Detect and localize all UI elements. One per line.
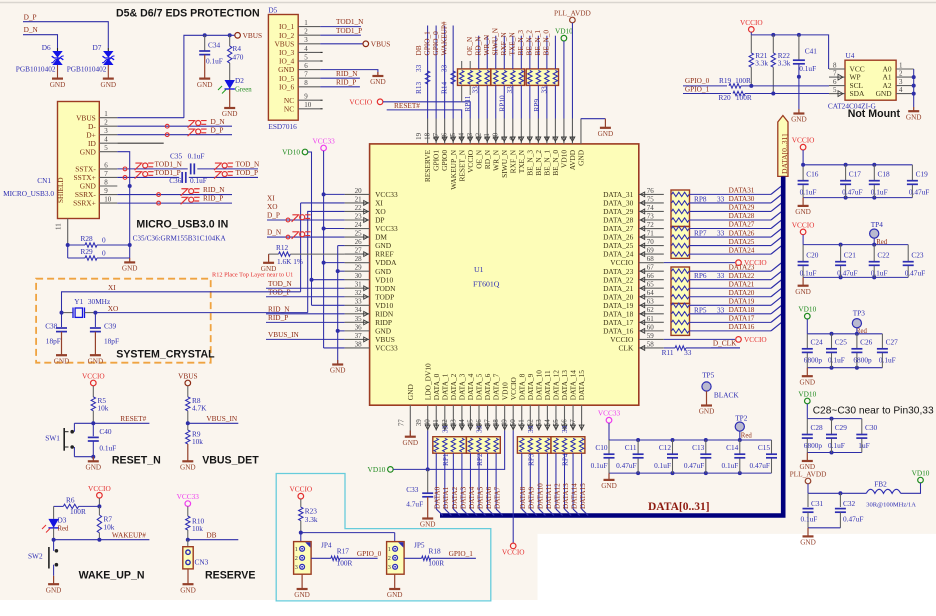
ground sym C34 (199, 77, 210, 79)
resistor R10 (187, 506, 189, 516)
svg-text:7: 7 (833, 70, 837, 78)
svg-text:C15: C15 (758, 443, 771, 452)
wire PLL_AVDD to pin2 (571, 23, 573, 119)
svg-text:SW1: SW1 (45, 434, 60, 443)
svg-text:7: 7 (304, 71, 308, 79)
U4 input arrows WP SDA (838, 74, 843, 80)
svg-text:8: 8 (104, 178, 108, 186)
svg-text:6800p: 6800p (804, 355, 823, 364)
wire PLL rail (808, 492, 866, 494)
wire RID_P pin35 (266, 321, 345, 323)
svg-text:ESD7016: ESD7016 (268, 122, 297, 131)
svg-text:WAKE_UP_N: WAKE_UP_N (79, 570, 145, 582)
svg-text:2: 2 (295, 555, 298, 562)
svg-text:33: 33 (526, 425, 535, 433)
wire VBUS CN1 pin1 (117, 117, 184, 119)
svg-text:GND: GND (601, 482, 617, 490)
capacitor C24 (806, 334, 808, 349)
svg-text:MICRO_USB3.0: MICRO_USB3.0 (3, 189, 54, 198)
svg-text:DATA6: DATA6 (485, 486, 493, 509)
svg-text:0.47uF: 0.47uF (616, 461, 636, 470)
svg-text:5: 5 (104, 144, 108, 152)
bus entry DATA4 (470, 509, 477, 516)
svg-text:JP5: JP5 (414, 541, 425, 550)
resistor R12 on RREF pin27 (269, 253, 279, 255)
svg-text:77: 77 (398, 419, 406, 427)
wire net DATA25 pin70 (690, 245, 772, 247)
wire VCCIO rail eeprom (750, 32, 752, 35)
svg-text:GND: GND (88, 357, 104, 365)
svg-text:JP4: JP4 (321, 541, 332, 550)
bus entry DATA1 (445, 509, 452, 516)
svg-text:33: 33 (717, 229, 725, 238)
svg-text:GPIO_1: GPIO_1 (685, 85, 710, 94)
svg-text:DATA25: DATA25 (729, 238, 755, 246)
svg-text:DATA21: DATA21 (729, 280, 755, 288)
svg-text:GND: GND (387, 591, 403, 599)
svg-text:BE_N_0: BE_N_0 (542, 30, 551, 56)
svg-text:8: 8 (833, 61, 837, 69)
wire TOD_N after C35 (197, 168, 258, 170)
svg-text:C35/C36:GRM155B31C104KA: C35/C36:GRM155B31C104KA (133, 234, 227, 242)
svg-text:0.47uF: 0.47uF (750, 461, 770, 470)
svg-text:D2: D2 (235, 76, 244, 85)
svg-text:RP10: RP10 (498, 95, 507, 112)
bus entry DATA17 (771, 314, 781, 322)
power port PLL_AVDD filter (805, 478, 811, 484)
svg-text:63: 63 (647, 298, 655, 306)
svg-text:VCC33: VCC33 (375, 344, 398, 353)
svg-text:GND: GND (420, 521, 436, 529)
ground sym U1 left (337, 360, 339, 365)
power port VCC33 reserve (185, 501, 191, 507)
svg-text:VCCIO: VCCIO (349, 97, 372, 106)
svg-text:GND: GND (180, 586, 196, 594)
resistor R5 (92, 386, 94, 397)
svg-text:RID_P: RID_P (203, 194, 223, 203)
svg-text:70: 70 (647, 238, 655, 246)
switch SW2 (53, 540, 55, 551)
wire pin1 GND route (581, 118, 605, 120)
svg-text:C17: C17 (849, 169, 862, 178)
svg-text:6800p: 6800p (804, 441, 823, 450)
U1 right pin stubs and numbers (639, 193, 664, 195)
svg-text:R12 Place Top Layer near to U1: R12 Place Top Layer near to U1 (212, 272, 293, 279)
bus entry DATA5 (479, 509, 486, 516)
svg-text:RP9: RP9 (532, 99, 541, 112)
svg-text:DATA29: DATA29 (729, 204, 755, 212)
wire RESET# net (92, 411, 94, 424)
svg-text:C28: C28 (811, 423, 824, 432)
ground sym VBUS_DET (187, 444, 189, 461)
wire net RD_N pin12 (486, 36, 488, 69)
svg-text:7: 7 (517, 136, 525, 140)
svg-text:C30: C30 (865, 423, 878, 432)
ground sym TP5 (706, 391, 708, 405)
svg-text:67: 67 (647, 264, 655, 272)
svg-text:GND: GND (598, 130, 614, 138)
svg-text:18: 18 (424, 132, 432, 140)
svg-text:R14: R14 (439, 81, 448, 94)
svg-text:33: 33 (684, 348, 692, 357)
svg-text:100R: 100R (428, 559, 444, 568)
wire VD10 to pin3 (563, 41, 565, 119)
svg-text:GND: GND (294, 591, 310, 599)
svg-text:3.3k: 3.3k (755, 59, 768, 68)
svg-text:33: 33 (439, 64, 448, 72)
capacitor C19 (911, 165, 913, 181)
wire SW1 bottom (74, 456, 93, 458)
dashed box SYSTEM_CRYSTAL (36, 279, 211, 363)
svg-text:R19: R19 (719, 76, 732, 85)
svg-text:PGB1010402: PGB1010402 (67, 65, 107, 74)
svg-text:33: 33 (414, 64, 423, 72)
wire C31 C32 bottoms (808, 527, 840, 529)
svg-text:76: 76 (647, 187, 655, 195)
svg-text:38: 38 (355, 340, 363, 348)
data bus horizontal (440, 513, 786, 518)
power port VBUS det (185, 380, 191, 386)
wire net DATA9 pin51 (529, 436, 531, 438)
wire RID_N D5 pin7 (320, 77, 360, 79)
power port VBUS D5 pin3 (320, 43, 363, 45)
svg-text:VCC33: VCC33 (177, 492, 200, 501)
svg-text:VCCIO: VCCIO (792, 136, 815, 145)
wire net WR_N pin11 (495, 36, 497, 69)
wire net DATA20 pin64 (690, 296, 772, 298)
resistor network RP10 (491, 69, 525, 86)
capacitor C20 (802, 245, 804, 262)
wire net BE_N_1 pin5 (546, 36, 548, 69)
svg-text:C22: C22 (877, 250, 890, 259)
LED D2 (229, 63, 231, 80)
svg-text:XI: XI (108, 283, 116, 292)
svg-text:17: 17 (432, 132, 440, 140)
svg-text:D3: D3 (58, 516, 67, 525)
svg-text:VD10: VD10 (798, 390, 816, 399)
svg-text:SHIELD: SHIELD (57, 177, 65, 203)
svg-text:C24: C24 (811, 337, 824, 346)
power port VCCIO wake (97, 493, 103, 499)
svg-text:VCC33: VCC33 (598, 409, 621, 418)
svg-text:C31: C31 (811, 499, 824, 508)
power port VD10 left (302, 149, 308, 155)
wire net DATA3 pin43 (461, 436, 463, 438)
capacitor C28 (806, 419, 808, 435)
svg-text:VCCIO: VCCIO (502, 548, 525, 557)
capacitor C14 (738, 438, 742, 442)
capacitor C31 (807, 493, 809, 507)
resistor R11 on CLK pin58 (664, 347, 675, 349)
svg-text:DATA12: DATA12 (553, 483, 561, 509)
svg-text:DATA_15: DATA_15 (577, 370, 586, 401)
wire U4 right common (913, 69, 915, 107)
wire TOD_P pin32 (266, 296, 345, 298)
svg-text:DATA10: DATA10 (536, 483, 544, 509)
svg-text:C18: C18 (878, 169, 891, 178)
svg-text:Red: Red (741, 432, 753, 439)
svg-text:DATA3: DATA3 (459, 486, 467, 509)
stub D5 pin5 (320, 60, 322, 62)
wire TOD1_P D5 pin2 (320, 34, 361, 36)
CN1 pin11 shield stub (67, 219, 69, 246)
bus entry DATA15 (582, 509, 589, 516)
bus entry DATA3 (462, 509, 469, 516)
wire net DATA11 pin53 (546, 436, 548, 438)
resistor network RP6 (671, 267, 690, 304)
bus entry DATA30 (771, 195, 781, 203)
svg-text:D_P: D_P (211, 125, 224, 134)
svg-text:XO: XO (108, 304, 119, 313)
svg-text:PLL_AVDD: PLL_AVDD (554, 9, 591, 18)
svg-text:1: 1 (295, 546, 298, 553)
svg-text:R29: R29 (81, 247, 94, 256)
ground sym pin1 (604, 119, 606, 128)
wire net DATA14 pin56 (572, 436, 574, 438)
svg-text:C36: C36 (169, 176, 182, 185)
capacitor C36 (181, 172, 183, 183)
svg-text:9: 9 (304, 93, 308, 101)
svg-text:RESET_N: RESET_N (112, 455, 161, 467)
ferrite bead FB2 (866, 489, 900, 493)
capacitor C12 (671, 438, 675, 442)
svg-text:D_P: D_P (24, 13, 37, 22)
svg-text:64: 64 (647, 289, 655, 297)
svg-text:GND: GND (101, 81, 117, 89)
svg-text:100R: 100R (337, 559, 353, 568)
svg-text:U1: U1 (474, 265, 484, 274)
wire net DATA18 pin62 (690, 313, 772, 315)
svg-text:DATA1: DATA1 (442, 486, 450, 509)
switch SW1 (73, 423, 75, 431)
D5 pin stubs and numbers (298, 26, 320, 28)
svg-text:C21: C21 (844, 250, 857, 259)
resistor R7 (98, 498, 100, 506)
U1 top pin direction arrows (434, 137, 439, 141)
ground sym bank5 (608, 473, 610, 480)
svg-text:VBUS: VBUS (178, 372, 197, 381)
svg-text:3: 3 (899, 78, 903, 86)
svg-text:PLL_AVDD: PLL_AVDD (790, 470, 827, 479)
power port PLL_AVDD top (570, 17, 576, 23)
svg-text:16: 16 (441, 132, 449, 140)
capacitor C22 (872, 243, 876, 247)
wire SSTX+ CN1 pin7 (117, 176, 179, 178)
wire net OE_N pin13 (478, 36, 480, 69)
svg-text:NC: NC (284, 104, 294, 113)
capacitor C38 (61, 313, 63, 327)
resistor network RP4 (551, 437, 585, 454)
capacitor C10 (608, 440, 610, 454)
svg-text:RESET#: RESET# (120, 414, 146, 423)
svg-text:C33: C33 (406, 485, 419, 494)
svg-text:74: 74 (647, 204, 655, 212)
wire D- CN1 pin2 (117, 125, 232, 127)
IC D5 ESD7016 body (268, 15, 298, 121)
stub RP11 spare tops (461, 61, 463, 69)
svg-text:73: 73 (647, 212, 655, 220)
svg-text:4: 4 (543, 136, 551, 140)
capacitor C26 (855, 332, 859, 336)
svg-text:R20: R20 (719, 93, 732, 102)
svg-text:25: 25 (355, 229, 363, 237)
LED D3 (53, 506, 55, 519)
svg-text:0.1uF: 0.1uF (654, 461, 671, 470)
wire net DATA31 pin76 (690, 193, 772, 195)
svg-text:C41: C41 (805, 47, 818, 56)
svg-text:30R@100MHz/1A: 30R@100MHz/1A (866, 502, 916, 509)
svg-text:GND: GND (46, 586, 62, 594)
bus entry DATA18 (771, 306, 781, 314)
svg-text:VBUS: VBUS (243, 31, 262, 40)
svg-text:GND: GND (800, 378, 816, 386)
svg-text:D_P: D_P (267, 211, 280, 220)
wire net DATA12 pin54 (555, 436, 557, 438)
wire VCC33 vertical left (323, 151, 325, 348)
svg-text:19: 19 (415, 132, 423, 140)
svg-text:21: 21 (355, 195, 363, 203)
svg-text:RP7: RP7 (694, 229, 707, 238)
wire VCCIO pin49 down (512, 431, 514, 543)
wire R23 to JP4 JP5 (300, 533, 302, 549)
svg-text:RID_P: RID_P (268, 313, 288, 322)
bus entry DATA16 (771, 323, 781, 331)
svg-text:11: 11 (483, 133, 491, 140)
resistor network RP8 (671, 190, 690, 227)
wire net DATA4 pin44 (469, 436, 471, 438)
svg-text:DATA20: DATA20 (729, 289, 755, 297)
svg-text:0.47uF: 0.47uF (842, 187, 862, 196)
svg-text:13: 13 (466, 132, 474, 140)
svg-text:5: 5 (534, 136, 542, 140)
svg-text:2: 2 (899, 70, 903, 78)
svg-text:23: 23 (355, 212, 363, 220)
svg-text:0: 0 (102, 249, 106, 258)
bus entry DATA21 (771, 280, 781, 288)
svg-text:CN3: CN3 (195, 558, 209, 567)
bus entry DATA24 (771, 246, 781, 254)
ground sym JP4 (301, 574, 303, 589)
svg-text:C20: C20 (806, 250, 819, 259)
svg-text:R11: R11 (662, 348, 674, 357)
wire DB net pin19 (427, 26, 429, 119)
svg-text:59: 59 (647, 332, 655, 340)
svg-text:0.47uF: 0.47uF (837, 268, 857, 277)
wire TOD_N pin31 (266, 287, 345, 289)
ground sym C33 (427, 497, 429, 519)
wire net DATA6 pin46 (487, 436, 489, 438)
svg-text:C23: C23 (911, 250, 924, 259)
svg-text:10k: 10k (192, 437, 203, 446)
svg-text:10k: 10k (192, 524, 203, 533)
power port VCCIO reset (91, 380, 97, 386)
svg-text:33: 33 (717, 194, 725, 203)
svg-text:TP4: TP4 (871, 220, 884, 229)
svg-text:9: 9 (500, 136, 508, 140)
stub D5 pin9 (320, 99, 322, 101)
svg-text:WAKEUP#: WAKEUP# (439, 21, 448, 55)
capacitor C15 (771, 440, 773, 454)
wire VD10 vertical left (308, 152, 312, 305)
capacitor C40 (92, 423, 94, 436)
bus entry DATA29 (771, 203, 781, 211)
svg-text:WAKEUP#: WAKEUP# (112, 530, 146, 539)
header JP4 (294, 542, 312, 575)
resistor network RP3 (517, 437, 551, 454)
svg-text:6: 6 (833, 78, 837, 86)
svg-text:3.3k: 3.3k (778, 59, 791, 68)
diode D6 (57, 48, 59, 51)
svg-text:5: 5 (833, 86, 837, 94)
svg-text:DATA5: DATA5 (476, 486, 484, 509)
svg-text:DATA19: DATA19 (729, 297, 755, 305)
svg-text:Red: Red (58, 526, 70, 533)
svg-text:1: 1 (304, 19, 308, 27)
svg-text:0.1uF: 0.1uF (871, 268, 888, 277)
resistor R18 (404, 557, 422, 559)
svg-text:33: 33 (717, 271, 725, 280)
svg-text:0: 0 (102, 236, 106, 245)
svg-text:CLK: CLK (619, 344, 634, 353)
svg-text:0.1uF: 0.1uF (828, 355, 845, 364)
svg-text:BLACK: BLACK (714, 390, 739, 399)
CN1 pin stubs and numbers (99, 117, 117, 119)
svg-text:TP2: TP2 (735, 414, 748, 423)
svg-text:1: 1 (388, 546, 391, 553)
svg-text:RID_P: RID_P (336, 77, 356, 86)
bus entry DATA26 (771, 229, 781, 237)
resistor R17 (311, 557, 331, 559)
wire net DATA0 pin40 (435, 436, 437, 438)
capacitor C27 (881, 334, 883, 349)
svg-text:5: 5 (304, 53, 308, 61)
resistor network RP9 (526, 69, 558, 86)
svg-text:GPIO_1: GPIO_1 (449, 549, 474, 558)
svg-text:D7: D7 (93, 43, 102, 52)
wire net BE_N_2 pin6 (537, 36, 539, 69)
resistor R19 (729, 84, 741, 88)
svg-text:DATA28: DATA28 (729, 212, 755, 220)
wire VBUS rail top (184, 35, 235, 118)
svg-text:DATA2: DATA2 (451, 486, 459, 509)
svg-text:R6: R6 (66, 496, 75, 505)
svg-text:GND: GND (50, 81, 66, 89)
svg-text:1uF: 1uF (858, 441, 869, 450)
IC U4 CAT24C04 body (845, 60, 896, 100)
resistor network RP2 (466, 437, 500, 454)
wire TOD1_N D5 pin1 (320, 26, 361, 28)
svg-text:69: 69 (647, 247, 655, 255)
wire R28 R29 joins (67, 245, 69, 258)
svg-text:SW2: SW2 (28, 552, 43, 561)
svg-text:1: 1 (104, 110, 108, 118)
resistor R20 (733, 91, 745, 95)
wire VD10 rail bottom (393, 431, 504, 470)
power port VCCIO bank2 (800, 229, 806, 235)
svg-text:0.1uF: 0.1uF (799, 64, 816, 73)
bus entry DATA7 (496, 509, 503, 516)
wire net DATA7 pin47 (495, 436, 497, 438)
svg-text:R18: R18 (429, 546, 442, 555)
wire net DATA27 pin72 (690, 228, 772, 230)
svg-text:100R: 100R (735, 76, 751, 85)
svg-text:VBUS: VBUS (371, 39, 390, 48)
power port VCCIO eeprom (749, 27, 755, 33)
svg-text:GND: GND (795, 208, 811, 216)
stub ID CN1 pin4 (117, 142, 163, 144)
wire XO from crystal (308, 211, 345, 312)
svg-text:7: 7 (104, 170, 108, 178)
